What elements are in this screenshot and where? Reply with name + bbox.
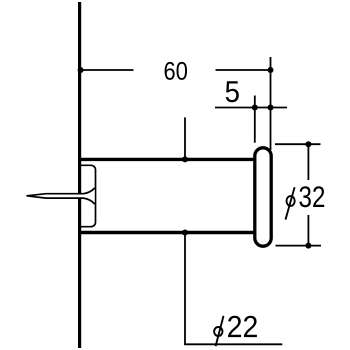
dimension 60 line right segment <box>216 69 271 71</box>
dimension 5 dot right <box>268 105 274 111</box>
hook body bottom line <box>79 231 256 234</box>
phi32 dot top <box>305 141 311 147</box>
phi32 phi symbol <box>286 187 295 219</box>
phi22 center extension stub above body <box>184 117 186 159</box>
wall line <box>78 2 81 348</box>
phi32 dimension line lower segment <box>307 215 309 246</box>
dimension 60 dot right <box>268 67 274 73</box>
phi22 dot top <box>182 156 188 162</box>
dimension 5 label <box>226 81 239 102</box>
phi22 leader vertical line <box>184 233 186 345</box>
phi32 bottom extension line <box>276 245 322 247</box>
dimension 60 dot left <box>78 67 84 73</box>
phi22 leader horizontal line <box>184 343 282 345</box>
phi22 phi symbol <box>214 316 223 346</box>
phi22 label digits <box>228 316 257 337</box>
dimension 60 label <box>165 62 187 80</box>
phi32 dot bottom <box>305 243 311 249</box>
phi22 dot bottom <box>182 230 188 236</box>
end cap capsule <box>255 148 271 246</box>
hook body top line <box>79 158 256 161</box>
phi32 dimension line upper segment <box>307 144 309 180</box>
dimension 5 line <box>215 107 287 109</box>
screw <box>27 188 95 204</box>
dimension 5 dot left <box>252 105 258 111</box>
mounting flange <box>81 165 96 226</box>
phi32 label digits <box>299 186 324 207</box>
extension line right of 60 <box>270 57 272 150</box>
dimension 60 line left segment <box>80 69 134 71</box>
extension line left of 5 <box>254 96 256 143</box>
phi32 top extension line <box>275 143 321 145</box>
